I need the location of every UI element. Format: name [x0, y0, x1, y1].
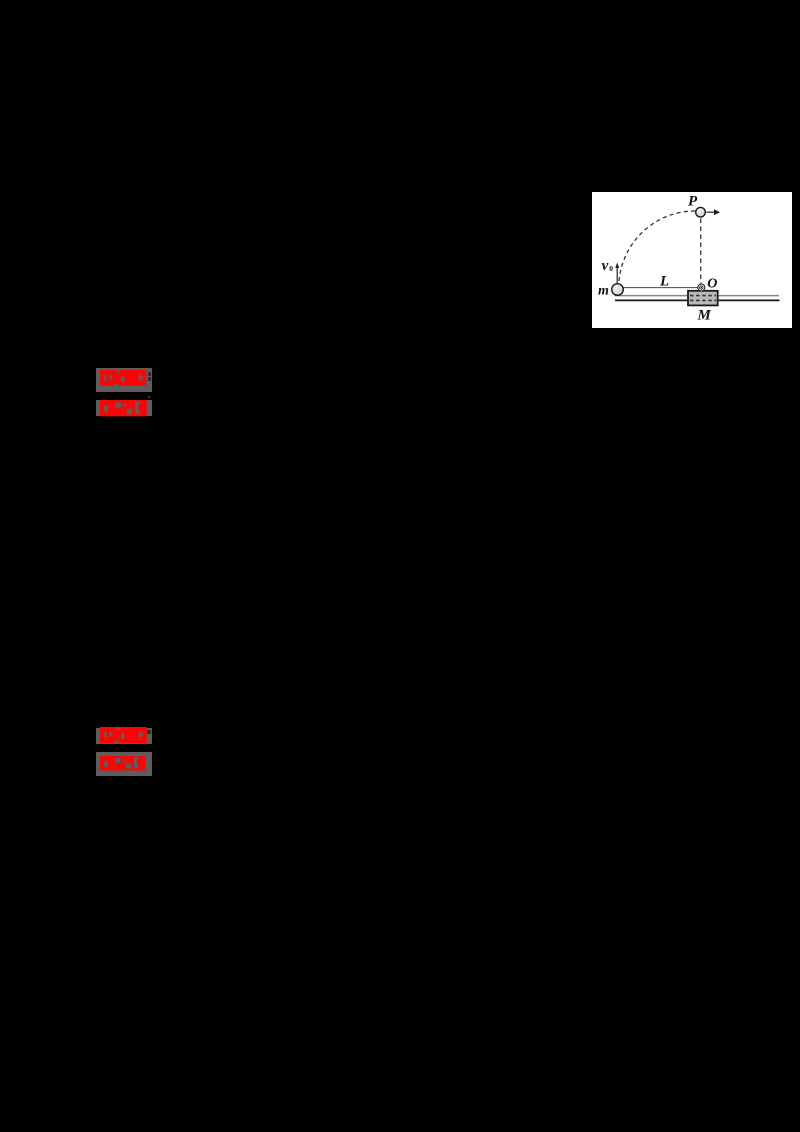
svg-text:O: O	[707, 276, 717, 291]
red tag 4: analysis	[96, 752, 152, 776]
svg-text:m: m	[598, 284, 609, 299]
wire: dashed trajectory arc	[619, 211, 695, 281]
node: pivot O symbol	[698, 284, 705, 291]
physics diagram panel	[592, 192, 792, 328]
svg-text:P: P	[688, 194, 698, 210]
svg-text:0: 0	[609, 264, 613, 273]
node: track black line	[615, 299, 780, 301]
svg-text:v: v	[602, 258, 609, 274]
wire: dashed vertical P-O line	[700, 219, 702, 284]
node: track gray line	[615, 295, 780, 297]
node: string L	[623, 287, 698, 289]
wire: velocity arrow at P	[707, 211, 715, 213]
svg-text:M: M	[697, 308, 712, 324]
red tag 3: answer	[96, 728, 152, 744]
node: ball at P	[696, 207, 706, 217]
red tag 1: answer	[96, 368, 152, 392]
node: block M	[688, 291, 718, 306]
wire: v0 arrow	[616, 267, 618, 284]
colon after tag 3	[147, 730, 151, 735]
svg-text:L: L	[659, 274, 669, 290]
red tag 2: analysis	[148, 396, 150, 398]
colon after tag 1	[148, 372, 152, 376]
node: ball m	[612, 284, 624, 296]
